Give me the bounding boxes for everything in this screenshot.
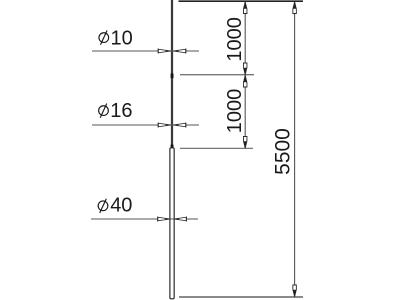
svg-text:40: 40 bbox=[110, 195, 132, 217]
svg-text:16: 16 bbox=[110, 100, 132, 122]
svg-text:1000: 1000 bbox=[224, 17, 246, 62]
svg-text:5500: 5500 bbox=[271, 128, 294, 175]
svg-text:10: 10 bbox=[111, 28, 133, 50]
svg-text:1000: 1000 bbox=[224, 89, 246, 134]
